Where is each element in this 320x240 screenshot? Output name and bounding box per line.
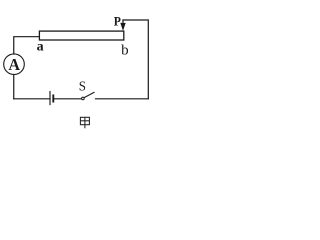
wire: slider stem from P wire down to arrowhead <box>122 20 124 24</box>
svg-text:a: a <box>37 40 44 55</box>
battery cell: short thick plate <box>52 95 54 101</box>
switch S pivot contact <box>82 97 85 100</box>
ammeter A <box>4 54 25 75</box>
wire: bottom rail from switch to right corner <box>96 98 149 100</box>
wire: bottom rail left segment from ammeter to battery <box>14 98 50 100</box>
slider arrowhead pointing down onto rheostat <box>120 23 125 31</box>
wire: top-right horizontal from slider P + right vertical down to bottom rail <box>123 20 148 99</box>
svg-text:b: b <box>121 43 129 59</box>
wire: left vertical top segment + top horizontal to rheostat terminal a <box>14 37 40 54</box>
svg-text:P: P <box>114 14 122 29</box>
wire: bottom rail from battery to switch <box>54 98 81 100</box>
switch S lever arm <box>84 92 94 97</box>
wire: left vertical bottom segment from ammeter to bottom rail <box>13 75 15 99</box>
svg-text:A: A <box>8 55 20 74</box>
svg-text:S: S <box>79 78 86 93</box>
label 甲 (figure caption, drawn as strokes) <box>80 117 89 128</box>
resistor (rheostat body) ab <box>39 31 123 40</box>
battery cell: long thin plate <box>49 92 51 105</box>
